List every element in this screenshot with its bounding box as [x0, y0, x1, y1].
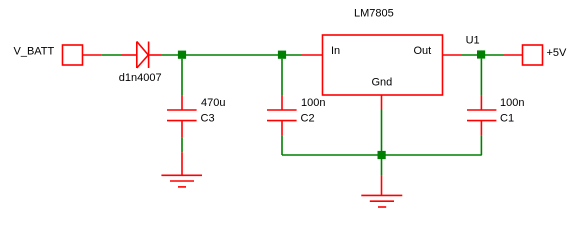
svg-text:C2: C2: [301, 112, 315, 124]
svg-text:+5V: +5V: [547, 47, 568, 59]
svg-text:LM7805: LM7805: [354, 8, 394, 20]
svg-text:470u: 470u: [201, 97, 225, 109]
svg-text:V_BATT: V_BATT: [14, 46, 55, 58]
svg-text:d1n4007: d1n4007: [119, 72, 162, 84]
svg-text:U1: U1: [466, 35, 480, 47]
svg-text:Gnd: Gnd: [372, 77, 393, 89]
svg-text:C3: C3: [201, 112, 215, 124]
svg-text:C1: C1: [500, 112, 514, 124]
svg-text:In: In: [331, 45, 340, 57]
svg-text:Out: Out: [414, 45, 432, 57]
svg-text:100n: 100n: [500, 97, 524, 109]
svg-text:100n: 100n: [301, 97, 325, 109]
